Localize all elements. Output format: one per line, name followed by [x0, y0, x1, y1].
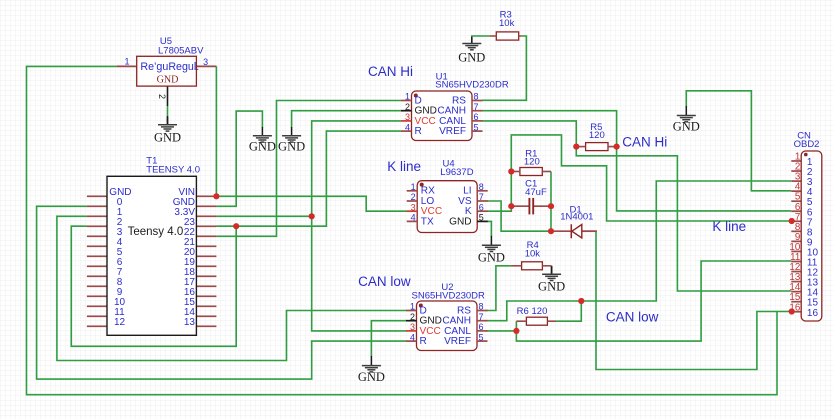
svg-text:1: 1: [411, 182, 416, 192]
node 3.3V rail: [309, 213, 315, 219]
wire Teensy pin22 to U1 pin D: [216, 101, 401, 237]
svg-text:GND: GND: [249, 140, 276, 154]
svg-text:GND: GND: [673, 120, 700, 134]
wire battery to D1 anode and OBD2 pin16: [596, 231, 792, 369]
svg-text:120: 120: [532, 306, 548, 317]
wire Teensy pin0 to U2 pin R: [37, 206, 407, 379]
node at C1 right: [548, 203, 554, 209]
svg-text:5: 5: [474, 122, 479, 132]
svg-text:RS: RS: [457, 305, 471, 316]
svg-text:R: R: [420, 336, 427, 347]
svg-text:GND: GND: [278, 140, 305, 154]
wire 5V from U5 output to Teensy VIN: [215, 66, 217, 196]
U1 pin-1 marker: [414, 94, 418, 98]
svg-text:7: 7: [479, 312, 484, 322]
svg-text:SN65HVD230DR: SN65HVD230DR: [412, 291, 486, 302]
wire 3.3V rail from Teensy to U1 VCC and U2 VCC: [216, 215, 311, 217]
wire U2 CANL to R6 left and OBD2 pin11: [487, 321, 517, 331]
svg-text:R: R: [415, 126, 422, 137]
capacitor C1 47uF: [511, 198, 551, 215]
svg-text:3: 3: [405, 112, 410, 122]
wire U2 RS pin to R4: [487, 266, 511, 311]
svg-text:7: 7: [474, 102, 479, 112]
ground for Teensy GND pin: [249, 127, 276, 154]
svg-text:L7805ABV: L7805ABV: [158, 46, 204, 57]
wire CANL net: U1 pin6 to R5 left and OBD2 pin14: [482, 121, 791, 291]
wire Teensy pin23 to U1 pin R: [216, 131, 401, 226]
resistor R3 10k: [496, 32, 518, 40]
wire R3 to ground symbol: [472, 36, 490, 44]
svg-text:120: 120: [589, 130, 605, 141]
node CANL2 at R6 left: [513, 328, 519, 334]
svg-text:1: 1: [124, 57, 129, 67]
svg-text:TX: TX: [421, 216, 434, 227]
svg-text:13: 13: [184, 317, 196, 328]
wire K-line net: U4 pin K to R1/C1 and OBD2 pin7: [487, 135, 792, 221]
wire D1 cathode lead joint to C1 right: [583, 230, 597, 232]
svg-text:6: 6: [479, 202, 484, 212]
voltage regulator U5 L7805ABV: [116, 56, 216, 86]
svg-text:12: 12: [114, 317, 126, 328]
svg-text:7: 7: [479, 192, 484, 202]
svg-text:5: 5: [479, 213, 484, 223]
node CANH at R5 right: [614, 144, 620, 150]
svg-text:GND: GND: [538, 280, 565, 294]
wire R6 right leg down to CANH net: [556, 301, 581, 321]
svg-text:1: 1: [405, 92, 410, 102]
svg-text:6: 6: [474, 112, 479, 122]
transceiver U4 L9637D (K line): [417, 181, 477, 233]
svg-text:GND: GND: [458, 51, 485, 65]
svg-text:8: 8: [474, 92, 479, 102]
svg-text:47uF: 47uF: [525, 187, 547, 198]
wire U2 GND pin to ground symbol: [371, 321, 406, 357]
svg-text:2: 2: [411, 192, 416, 202]
svg-text:K line: K line: [387, 159, 421, 174]
svg-text:6: 6: [479, 322, 484, 332]
node CANL at R5 left: [573, 144, 579, 150]
svg-text:L9637D: L9637D: [440, 167, 473, 178]
node Teensy pin23: [233, 223, 239, 229]
svg-text:3: 3: [410, 322, 415, 332]
svg-text:2: 2: [157, 94, 167, 99]
svg-text:1: 1: [410, 302, 415, 312]
node K-line at R1 left: [508, 168, 514, 174]
resistor R1 120 (K line): [520, 168, 542, 176]
svg-text:CAN low: CAN low: [606, 310, 659, 325]
svg-text:CAN Hi: CAN Hi: [622, 135, 667, 150]
svg-text:8: 8: [479, 182, 484, 192]
svg-text:GND: GND: [157, 75, 179, 86]
op-amp U1 SN65HVD230DR CAN transceiver (CAN Hi): [412, 91, 473, 141]
svg-text:Teensy 4.0: Teensy 4.0: [128, 226, 184, 238]
node K-line at C1 left: [508, 203, 514, 209]
wire CANH net: U1 pin7 to R5 right and OBD2 pin6: [482, 111, 791, 211]
wire Teensy pin2 to pin23 (bottom loop): [71, 226, 236, 346]
node 5V at Teensy VIN: [213, 193, 219, 199]
ground for R4: [538, 266, 565, 294]
microcontroller T1 Teensy 4.0: [87, 176, 217, 335]
svg-text:3: 3: [203, 57, 208, 67]
node at D1 cathode: [548, 228, 554, 234]
svg-text:5: 5: [479, 332, 484, 342]
svg-text:120: 120: [524, 157, 540, 168]
node at OBD2 pin7: [789, 218, 795, 224]
wire U4 VS pin to D1 cathode node: [487, 201, 551, 231]
U2 pin-1 marker: [419, 304, 423, 308]
svg-text:RS: RS: [452, 95, 466, 106]
wire U2 CANH to R6 right and OBD2 pin3: [487, 181, 792, 321]
wire R1/C1 right side to D1 cathode: [550, 172, 552, 232]
svg-text:8: 8: [479, 302, 484, 312]
ground for U4 GND pin: [478, 236, 505, 265]
wire U1 GND pin to ground symbol: [292, 111, 401, 128]
diode D1 1N4001: [551, 224, 597, 238]
node CANH2 at R6 right: [578, 298, 584, 304]
resistor R5 120 (CAN Hi terminator): [586, 143, 608, 151]
ground for U1 GND pin: [278, 127, 305, 154]
svg-text:10k: 10k: [499, 18, 515, 29]
resistor R4 10k: [522, 262, 543, 270]
svg-text:OBD2: OBD2: [794, 139, 820, 150]
svg-text:SN65HVD230DR: SN65HVD230DR: [435, 80, 509, 91]
svg-text:GND: GND: [478, 251, 505, 265]
wire U5 GND pin to ground symbol: [167, 106, 169, 116]
svg-text:2: 2: [405, 102, 410, 112]
wire 5V from VIN to U4 VCC: [216, 196, 407, 211]
svg-text:4: 4: [411, 213, 416, 223]
chassis ground for OBD2 pin4: [673, 106, 700, 134]
svg-text:4: 4: [405, 122, 410, 132]
svg-text:TEENSY 4.0: TEENSY 4.0: [146, 165, 200, 176]
svg-text:VREF: VREF: [439, 126, 466, 137]
wire R4 right to ground symbol: [551, 266, 553, 274]
op-amp U2 SN65HVD230DR CAN transceiver (CAN low): [417, 301, 478, 351]
node at OBD2 pin16: [789, 308, 795, 314]
svg-text:Re’guRegul.: Re’guRegul.: [140, 61, 199, 73]
U4 pin-1 marker: [420, 183, 424, 187]
svg-text:GND: GND: [358, 370, 385, 384]
svg-text:2: 2: [410, 312, 415, 322]
svg-text:4: 4: [410, 332, 415, 342]
ground below U5 regulator: [154, 117, 181, 145]
svg-text:R6: R6: [517, 306, 529, 317]
svg-text:CAN Hi: CAN Hi: [368, 64, 413, 79]
svg-text:CAN low: CAN low: [358, 274, 411, 289]
svg-text:3: 3: [411, 202, 416, 212]
svg-text:K line: K line: [712, 219, 746, 234]
wire U4 GND pin to ground symbol: [487, 221, 492, 236]
svg-text:1N4001: 1N4001: [560, 212, 593, 223]
svg-text:10k: 10k: [525, 249, 541, 260]
wire Teensy pin1 to U2 pin D: [57, 216, 407, 360]
svg-text:16: 16: [807, 308, 819, 319]
ground for R3: [458, 37, 485, 65]
wire Teensy GND to ground symbol: [216, 111, 262, 206]
resistor R6 120 (CAN low terminator): [526, 317, 547, 325]
wire 12V battery rail from OBD2 pin16 to U5 input (left/bottom rail): [27, 66, 778, 394]
ground for U2 GND pin: [358, 356, 385, 384]
connector CN OBD2: [791, 151, 822, 321]
wire U1 RS pin to R3: [482, 36, 526, 100]
wire chassis ground symbol to OBD2 pin4: [686, 91, 791, 191]
svg-text:GND: GND: [449, 216, 471, 227]
svg-text:GND: GND: [154, 131, 181, 145]
svg-text:VREF: VREF: [444, 336, 471, 347]
OBD2 pin-1 marker: [804, 153, 808, 157]
